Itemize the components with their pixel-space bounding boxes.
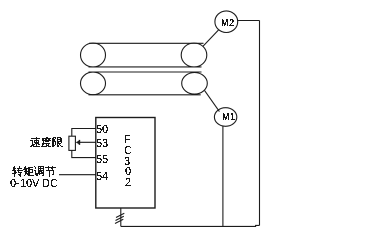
wire terminal 53 to potentiometer wiper [80, 141, 96, 143]
motor M1 circle [214, 108, 236, 127]
wire M2 to right bus [238, 20, 260, 22]
motor M2 label [222, 19, 234, 26]
wire right bus vertical [259, 21, 261, 226]
terminal 55 label [97, 155, 108, 163]
drive name letter C [125, 146, 131, 154]
screened cable hatch mark 3 [115, 219, 123, 223]
conveyor roller top-right [181, 43, 207, 67]
wire terminal 54 torque reference input [59, 174, 96, 176]
terminal 53 label [97, 139, 108, 147]
drive name digit 2 [125, 178, 131, 186]
potentiometer body [69, 136, 76, 150]
shaft link roller to M2 [203, 30, 219, 46]
belt 2 top line [89, 71, 202, 73]
wire terminal 50 to potentiometer top [72, 129, 96, 137]
terminal 54 label [97, 172, 108, 180]
wire terminal 55 to potentiometer bottom [72, 150, 96, 157]
wire bottom bus [121, 225, 260, 226]
drive FC302 box [96, 118, 155, 209]
wire M1 down to bottom bus [222, 126, 224, 226]
drive name letter F [125, 135, 130, 143]
belt 2 bottom line [89, 94, 201, 96]
screened cable hatch mark 2 [116, 216, 124, 220]
drive name digit 3 [125, 157, 130, 165]
screened cable hatch mark 1 [116, 213, 124, 217]
label torque adjust (转矩调节) [12, 166, 56, 177]
conveyor roller bottom-right [182, 73, 208, 95]
label speed limit (速度限) [30, 137, 63, 147]
drive name digit 0 [125, 167, 131, 175]
terminal 50 label [97, 125, 108, 133]
motor M1 label [223, 113, 235, 120]
motor M2 circle [215, 11, 238, 33]
conveyor roller top-left [81, 43, 106, 67]
conveyor roller bottom-left [81, 72, 106, 95]
belt 1 top line [89, 42, 204, 44]
belt 1 bottom line [89, 66, 202, 68]
wire drive ground lead [120, 208, 122, 226]
label 0-10V DC [10, 179, 57, 187]
potentiometer wiper arrowhead [76, 140, 81, 145]
shaft link roller to M1 [205, 91, 220, 112]
